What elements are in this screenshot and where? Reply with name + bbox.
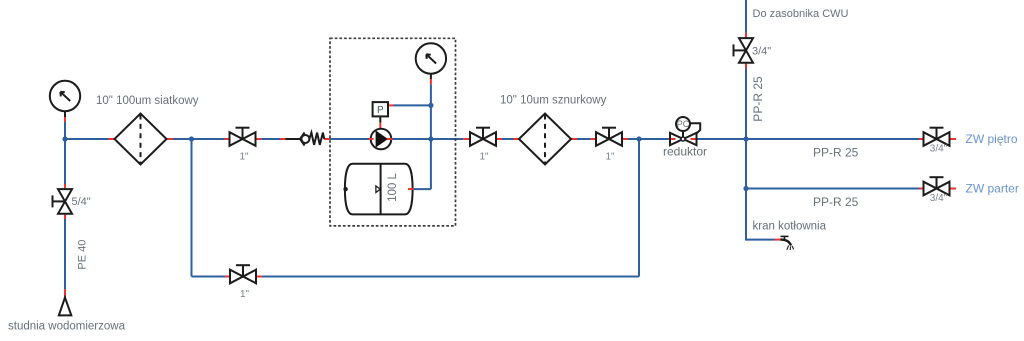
wire: red joint right of check valve <box>324 138 330 140</box>
wire: red joint left of filter 1 <box>108 138 115 140</box>
node: junction pressure switch line <box>428 103 433 108</box>
valve V4 1" (bypass) <box>230 265 256 283</box>
svg-text:studnia wodomierzowa: studnia wodomierzowa <box>8 321 126 333</box>
wire: red joint right of valve V1 <box>256 138 262 140</box>
wire: red joint left of check valve <box>280 138 285 140</box>
wire: bypass right riser <box>638 139 640 277</box>
svg-text:1": 1" <box>605 152 615 163</box>
valve V1 1" <box>230 128 256 146</box>
wire: pipe valve V3 to reduktor <box>628 138 669 140</box>
well symbol (triangle) <box>59 298 72 316</box>
svg-text:10" 100um siatkowy: 10" 100um siatkowy <box>96 95 199 107</box>
node: junction ZW parter <box>743 186 748 191</box>
wire: red joint below CWU valve <box>745 63 747 69</box>
wire: pipe into pump group box <box>330 138 369 140</box>
wire: red joint left of valve V4 <box>225 276 230 278</box>
red joint overlays on pump <box>369 138 374 140</box>
svg-text:Do zasobnika CWU: Do zasobnika CWU <box>753 8 849 20</box>
wire: tank connection horizontal <box>414 188 431 190</box>
wire: pipe out of box to valve V2 <box>456 138 464 140</box>
svg-text:5/4": 5/4" <box>72 196 91 208</box>
svg-text:reduktor: reduktor <box>663 145 707 159</box>
dashed enclosure: pump group <box>330 38 456 226</box>
wire: pipe pump to in-box junction <box>393 138 456 140</box>
wire: bypass bottom run right of valve V4 <box>262 276 639 278</box>
valve ZW pietro 3/4" <box>924 128 950 146</box>
svg-text:P: P <box>377 105 384 116</box>
node: junction bypass left <box>189 136 194 141</box>
svg-text:1": 1" <box>240 289 250 300</box>
wire: red joint at kran <box>775 239 781 241</box>
wire: red joint left of valve V2 <box>463 138 470 140</box>
pump P1 <box>371 129 392 150</box>
wire: red joint right of pump <box>387 138 393 140</box>
svg-text:kran kotłownia: kran kotłownia <box>753 221 827 233</box>
valve V2 1" <box>470 128 496 146</box>
svg-text:ZW piętro: ZW piętro <box>966 132 1018 146</box>
valve CWU 3/4" <box>734 38 754 63</box>
valve V3 1" <box>596 128 622 146</box>
svg-text:1": 1" <box>479 152 489 163</box>
svg-text:1": 1" <box>239 152 249 163</box>
wire: main horizontal pipe from gauge riser to filter 1 <box>65 138 108 140</box>
wire: red joint right of valve V4 <box>256 276 262 278</box>
wire: red joint left of ZW parter valve <box>919 188 925 190</box>
filter F1 10" 100um siatkowy <box>115 114 167 165</box>
wire: red joint right of reduktor <box>691 138 698 140</box>
wire: pressure switch link blue <box>394 104 431 106</box>
wire: red joint right of ZW parter valve <box>949 188 957 190</box>
wire: red joint left of valve V1 <box>225 138 230 140</box>
wire: pressure switch stem black <box>379 116 381 122</box>
wire: red joint at tank <box>408 188 414 190</box>
wire: pipe valve V1 to check valve <box>261 138 280 140</box>
wire: red joint left of pump <box>369 138 374 140</box>
pressure gauge G2 (pump group) <box>416 43 446 73</box>
svg-text:PC: PC <box>677 119 690 129</box>
check valve (spring) <box>285 133 324 146</box>
svg-text:3/4": 3/4" <box>930 144 948 155</box>
wire: red joint left of valve V3 <box>591 138 597 140</box>
wire: riser gauge 1 blue segment <box>64 122 66 139</box>
wire: red joint above valve V5 <box>64 184 66 189</box>
wire: red joint under gauge 2 <box>430 79 432 84</box>
svg-text:3/4": 3/4" <box>930 193 948 204</box>
wire: red joint left of ZW pietro valve <box>919 138 925 140</box>
wire: red joint left of filter 2 <box>514 138 520 140</box>
svg-text:100 L: 100 L <box>387 173 399 202</box>
node: junction gauge riser / main <box>62 136 67 141</box>
wire: pressure switch link red <box>388 104 394 106</box>
wire: red joint right of valve V3 <box>622 138 628 140</box>
svg-text:PE 40: PE 40 <box>77 240 89 270</box>
wire: well drop pipe lower blue PE 40 <box>64 219 66 289</box>
valve ZW parter 3/4" <box>924 177 950 195</box>
wire: red joint above well symbol <box>64 289 66 297</box>
wire: gauge 1 stem <box>64 111 66 117</box>
wire: bypass bottom run left of valve V4 <box>192 276 226 278</box>
wire: red joint right of filter 2 <box>571 138 577 140</box>
wire: pipe ZW pietro run <box>746 138 919 140</box>
valve V5 5/4" (well shut-off) <box>53 189 73 214</box>
wire: red joint below valve V5 <box>64 214 66 219</box>
pressure reducer (reduktor) <box>670 117 700 145</box>
expansion tank 100 L <box>343 164 412 215</box>
wire: pipe filter 2 to valve V3 <box>577 138 591 140</box>
filter F2 10" 10um sznurkowy <box>519 114 571 165</box>
wire: pressure switch stem red <box>379 123 381 129</box>
wire: drop to kran kotlownia <box>746 189 775 240</box>
wire: CWU riser to top edge <box>745 0 747 33</box>
wire: ZW parter run <box>746 188 919 190</box>
wire: well drop pipe upper blue <box>64 139 66 184</box>
wire: in-box riser blue <box>430 84 432 189</box>
svg-text:3/4": 3/4" <box>752 46 771 58</box>
svg-text:PP-R 25: PP-R 25 <box>751 76 765 122</box>
wire: bypass left riser <box>191 139 193 277</box>
node: junction bypass right <box>636 136 641 141</box>
wire: red joint overlay at tank edge <box>408 188 414 190</box>
wire: pipe valve V2 to filter 2 <box>502 138 514 140</box>
pressure gauge G1 <box>50 81 80 111</box>
wire: red joint right of valve V2 <box>496 138 502 140</box>
wire: red joint above CWU valve <box>745 33 747 39</box>
svg-text:PP-R 25: PP-R 25 <box>813 195 859 209</box>
svg-text:PP-R 25: PP-R 25 <box>813 146 859 160</box>
node: junction in-box riser / main <box>428 136 433 141</box>
node: junction CWU riser / main <box>743 136 748 141</box>
wire: red joint right of ZW pietro valve <box>949 138 957 140</box>
wire: pipe filter 1 to valve V1 <box>173 138 225 140</box>
wire: red joint right of filter 1 <box>167 138 174 140</box>
faucet (tap) symbol <box>780 236 793 250</box>
wire: gauge 2 stem <box>430 74 432 79</box>
wire: CWU riser above junction <box>745 69 747 140</box>
svg-text:ZW parter: ZW parter <box>966 182 1019 196</box>
wire: red joint left of reduktor <box>669 138 676 140</box>
wire: pipe reduktor to distribution junction <box>698 138 747 140</box>
svg-text:10" 10um sznurkowy: 10" 10um sznurkowy <box>500 95 607 107</box>
wire: red joint under gauge 1 <box>64 117 66 122</box>
wire: drop to ZW parter junction <box>745 139 747 189</box>
pressure switch P <box>373 102 388 116</box>
